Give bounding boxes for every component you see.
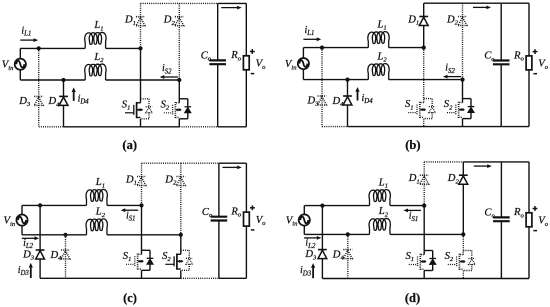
wire: output loop top (c) (219, 162, 247, 164)
label + output polarity (b) (533, 51, 538, 53)
diode D1 branch (b) (419, 3, 428, 47)
transistor S2 (d) MOSFET channel/gate (448, 254, 466, 270)
current arrow iL2 (22, 237, 35, 239)
node: L2 line / D4 junction (d) (346, 232, 350, 236)
wire: L2 to node (c) (107, 234, 181, 236)
node: L2 line / S2 drain junction (a) (177, 78, 181, 82)
wire: L2 to node (b) (389, 79, 463, 81)
inductor L1 (a) (85, 32, 106, 48)
node: L1 line / S1 drain junction (d) (422, 204, 426, 208)
capacitor Co (d) (493, 162, 510, 279)
inductor L2 (a) (85, 64, 106, 80)
current arrow iD3 (312, 267, 314, 278)
body diode of S2 (a) (179, 99, 191, 119)
wire: L1 to node (b) (389, 47, 424, 49)
svg-text:(d): (d) (405, 291, 420, 305)
transistor S2 (b) MOSFET channel/gate (447, 102, 465, 118)
label - output polarity (c) (251, 229, 255, 231)
wire: input top line to L1 (a) (20, 47, 85, 49)
voltage source Vin (c) (16, 205, 27, 234)
wire: S1 drain (a) (140, 48, 142, 102)
resistor Ro (d) (526, 162, 532, 279)
node: L1 line / S1 drain junction (c) (139, 203, 143, 207)
wire: S1 source (d) (423, 271, 425, 279)
body diode of S2 (c) (181, 250, 193, 270)
wire: input top line to L1 (d) (304, 205, 369, 207)
body diode of S2 (b) (463, 99, 475, 119)
wire: S2 source (d) (462, 271, 464, 279)
output current arrow (c) (222, 166, 237, 168)
resistor Ro (c) (244, 163, 250, 278)
wire: L1 to node (a) (106, 47, 141, 49)
body diode of S1 (d) (424, 251, 436, 271)
wire: L1 to node (d) (390, 205, 424, 207)
capacitor Co (a) (209, 3, 226, 126)
diode D3 branch (d) (318, 206, 327, 279)
wire: top rail D1-D2 (a) (141, 2, 180, 4)
wire: bottom rail segment 3 (a) (179, 126, 217, 128)
wire: S1 source (b) (423, 119, 425, 127)
wire: top rail D2-output (d) (463, 161, 501, 163)
transistor S1 (d) MOSFET channel/gate (409, 254, 427, 270)
current arrow iD4 (357, 91, 359, 101)
wire: bottom rail segment 2 (c) (181, 277, 219, 279)
svg-text:(a): (a) (122, 138, 137, 152)
wire: input bottom line to L2 (b) (303, 79, 368, 81)
wire: S2 drain (b) (462, 80, 464, 103)
inductor L2 (d) (369, 218, 390, 234)
transistor S1 (b) MOSFET channel/gate (408, 102, 426, 118)
node: top line / D3 junction (c) (38, 203, 42, 207)
svg-text:(b): (b) (405, 138, 420, 152)
node: top line / D3 junction (a) (37, 46, 41, 50)
current arrow iS1 (125, 209, 139, 211)
wire: L2 to node (d) (390, 233, 463, 235)
wire: input top line to L1 (b) (303, 47, 368, 49)
wire: top rail D2-output (a) (179, 2, 217, 4)
svg-text:(c): (c) (123, 291, 137, 305)
wire: input bottom line to L2 (c) (22, 234, 87, 236)
wire: output loop bottom (c) (219, 277, 247, 279)
capacitor Co (c) (211, 163, 228, 278)
wire: S1 drain (b) (423, 48, 425, 103)
node: L2 line / D4 junction (b) (345, 78, 349, 82)
inductor L1 (d) (369, 190, 390, 206)
diode D2 branch (a) (175, 3, 184, 80)
wire: S2 drain (c) (180, 235, 182, 255)
transistor S2 (c) MOSFET channel/gate (165, 254, 183, 270)
wire: S1 drain (c) (141, 205, 143, 254)
diode D2 branch (b) (458, 3, 467, 79)
node: L2 line / D4 junction (c) (63, 233, 67, 237)
wire: S1 drain (d) (423, 206, 425, 255)
inductor L2 (b) (368, 64, 389, 80)
wire: S2 drain (d) (462, 234, 464, 254)
wire: output loop bottom (a) (218, 126, 247, 128)
transistor S2 (a) MOSFET channel/gate (164, 102, 182, 118)
wire: top rail D2-output (c) (181, 162, 219, 164)
wire: L2 to node (a) (106, 79, 180, 81)
wire: output loop bottom (d) (501, 278, 529, 280)
wire: S2 source (b) (462, 119, 464, 127)
output current arrow (a) (221, 7, 238, 9)
current arrow iS2 (164, 76, 178, 78)
output current arrow (b) (473, 6, 487, 8)
wire: top rail D1-D2 (d) (424, 161, 463, 163)
diode D4 branch (a) (59, 80, 68, 127)
diode D1 branch (d) (420, 162, 429, 206)
resistor Ro (a) (243, 3, 249, 126)
node: L2 line / S2 drain junction (d) (461, 232, 465, 236)
node: top line / D3 junction (b) (320, 46, 324, 50)
diode D4 branch (d) (343, 234, 352, 278)
wire: output loop bottom (b) (501, 126, 529, 128)
diode D2 branch (c) (176, 163, 185, 235)
diode D1 branch (c) (137, 163, 146, 205)
wire: bottom rail segment 1 (d) (322, 278, 501, 280)
diode D3 branch (c) (36, 205, 45, 278)
wire: top rail D1-D2 (b) (424, 2, 463, 4)
diode D2 branch (d) (459, 162, 468, 235)
wire: bottom rail segment 1 (a) (39, 126, 64, 128)
wire: S2 drain (a) (178, 80, 180, 103)
transistor S1 (c) MOSFET channel/gate (126, 254, 144, 270)
current arrow iD3 (30, 267, 32, 278)
current arrow iS2 (447, 76, 461, 78)
wire: bottom rail segment 1 (b) (322, 126, 348, 128)
node: L2 line / S2 drain junction (b) (460, 78, 464, 82)
label + output polarity (c) (250, 207, 255, 209)
inductor L1 (b) (368, 32, 389, 48)
output current arrow (d) (474, 165, 488, 167)
body diode of S1 (a) (141, 99, 153, 119)
diode D3 branch (b) (318, 48, 327, 127)
node: top line / D3 junction (d) (320, 204, 324, 208)
voltage source Vin (b) (298, 48, 309, 80)
wire: output loop top (b) (501, 2, 529, 4)
capacitor Co (b) (493, 3, 510, 126)
wire: L1 to node (c) (107, 204, 142, 206)
transistor S1 (a) MOSFET channel/gate (125, 102, 143, 118)
label - output polarity (a) (251, 73, 255, 75)
wire: bottom rail segment 2 (b) (348, 126, 502, 128)
body diode of S1 (c) (142, 250, 154, 270)
diode D4 branch (b) (343, 80, 352, 127)
inductor L1 (c) (86, 189, 107, 205)
wire: bottom rail segment 1 (c) (40, 277, 181, 279)
wire: output loop top (d) (501, 161, 529, 163)
inductor L2 (c) (86, 219, 107, 235)
wire: S1 source (a) (140, 119, 142, 127)
wire: output loop top (a) (218, 2, 247, 4)
current arrow iL1 (20, 39, 34, 41)
diode D3 branch (a) (34, 48, 43, 126)
node: L1 line / S1 drain junction (b) (422, 46, 426, 50)
wire: top rail D2-output (b) (463, 2, 502, 4)
wire: S2 source (c) (180, 270, 182, 278)
wire: S2 source (a) (178, 119, 180, 127)
node: L1 line / S1 drain junction (a) (138, 46, 142, 50)
current arrow iS1 (407, 209, 421, 211)
label + output polarity (a) (250, 51, 255, 53)
wire: top rail D1-D2 (c) (142, 162, 181, 164)
voltage source Vin (d) (299, 206, 310, 235)
body diode of S2 (d) (463, 251, 475, 271)
current arrow iL2 (304, 237, 317, 239)
label - output polarity (b) (533, 73, 537, 75)
wire: S1 source (c) (141, 270, 143, 278)
wire: input top line to L1 (c) (22, 204, 87, 206)
voltage source Vin (a) (15, 48, 26, 80)
node: L2 line / S2 drain junction (c) (179, 233, 183, 237)
wire: input bottom line to L2 (a) (20, 79, 85, 81)
wire: bottom rail segment 2 (a) (64, 126, 180, 128)
body diode of S1 (b) (424, 99, 436, 119)
label + output polarity (d) (533, 208, 538, 210)
wire: input bottom line to L2 (d) (304, 233, 369, 235)
current arrow iD4 (73, 91, 75, 101)
current arrow iL1 (303, 38, 317, 40)
diode D1 branch (a) (136, 3, 145, 48)
label - output polarity (d) (533, 230, 537, 232)
resistor Ro (b) (526, 3, 532, 126)
diode D4 branch (c) (61, 235, 70, 278)
node: L2 line / D4 junction (a) (61, 78, 65, 82)
